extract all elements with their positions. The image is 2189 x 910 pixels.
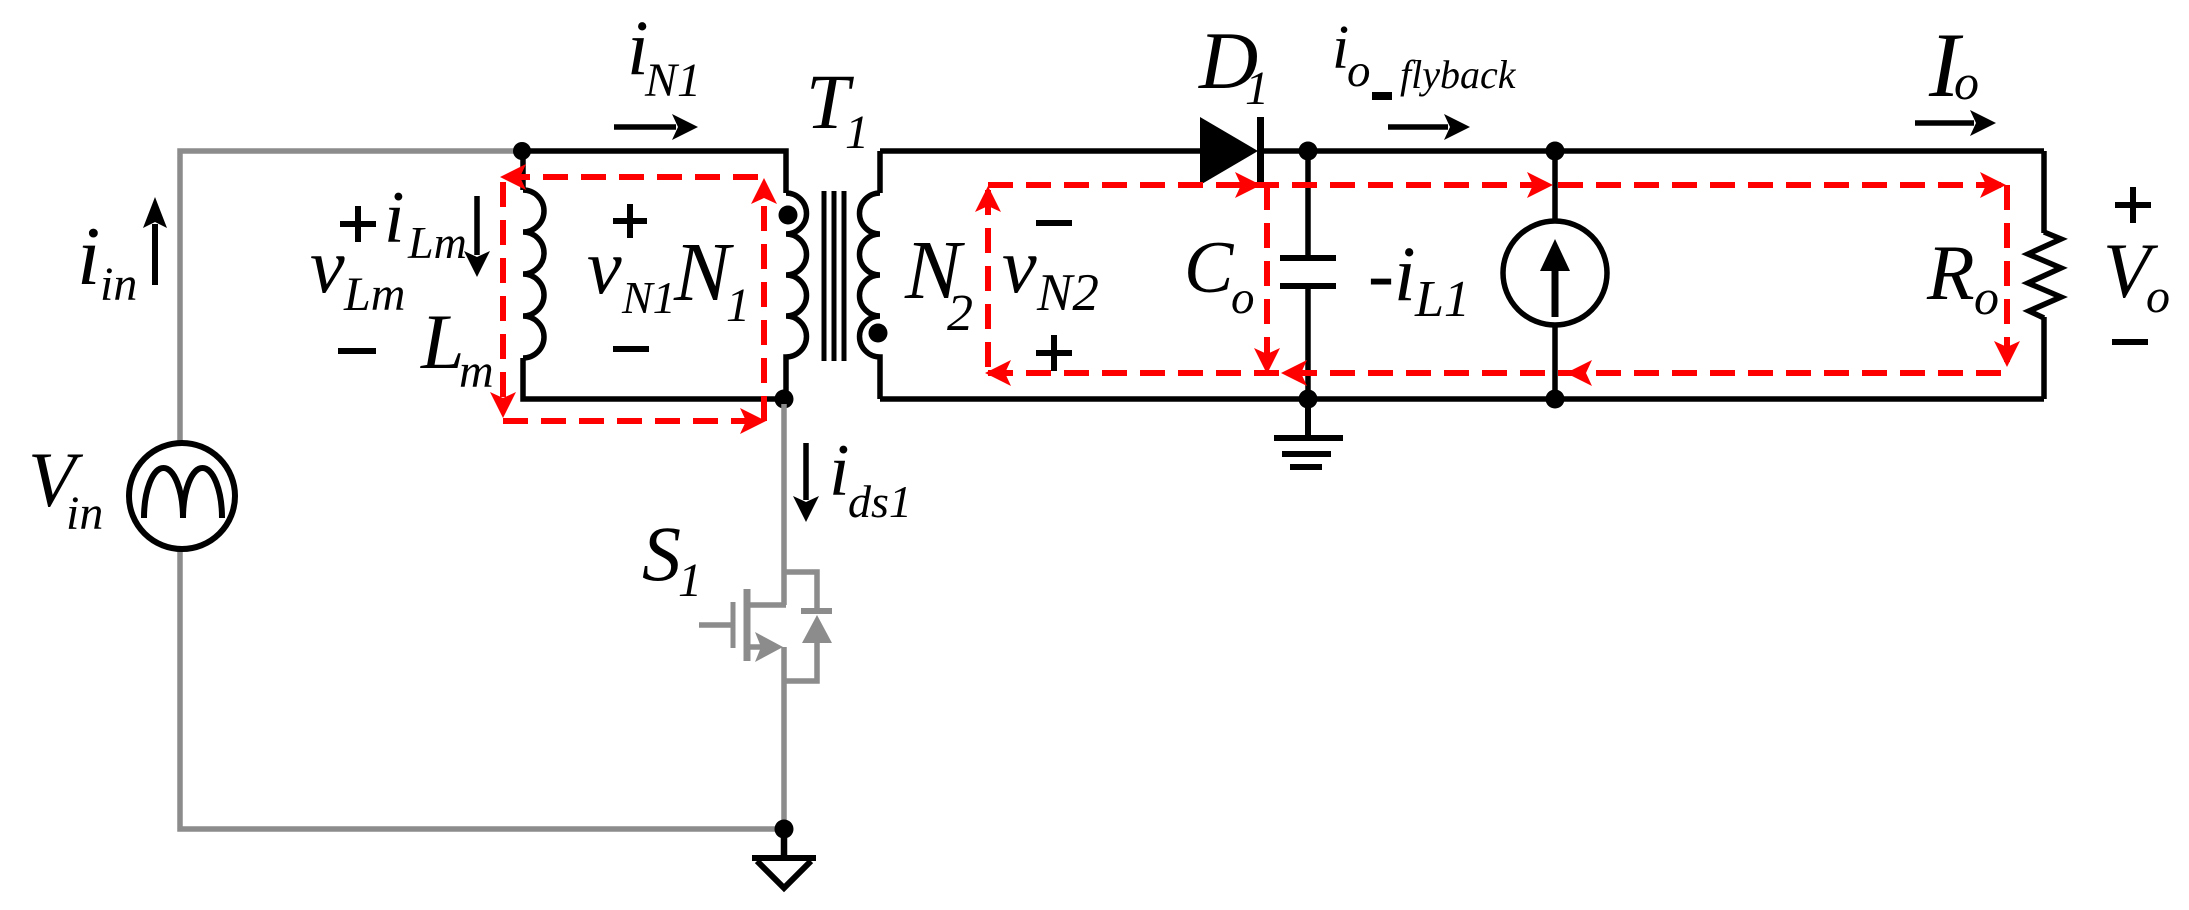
svg-text:o: o bbox=[1974, 269, 1999, 325]
svg-text:i: i bbox=[829, 430, 850, 512]
transformer T1 primary winding bbox=[786, 193, 806, 399]
svg-text:2: 2 bbox=[947, 285, 973, 342]
svg-text:N2: N2 bbox=[1036, 264, 1099, 322]
MOSFET S1 source arrow bbox=[755, 632, 783, 662]
node current source top bbox=[1546, 142, 1565, 161]
arrow i_in bbox=[152, 224, 158, 285]
svg-text:o: o bbox=[1347, 45, 1371, 97]
arrow i_o_flyback bbox=[1388, 124, 1448, 130]
svg-text:1: 1 bbox=[1245, 62, 1269, 115]
transformer secondary polarity dot bbox=[869, 324, 888, 343]
wire secondary bottom bbox=[880, 396, 2044, 402]
resistor Ro zigzag bbox=[2028, 232, 2061, 318]
red loop 2/3 top dashed line bbox=[988, 185, 2007, 373]
red loop 1 arrowheads bbox=[490, 164, 777, 434]
capacitor Co top lead bbox=[1305, 151, 1311, 256]
svg-text:o: o bbox=[2146, 270, 2170, 323]
inductor Lm stub bottom / wire bottom primary bbox=[523, 358, 786, 399]
svg-text:o: o bbox=[1954, 54, 1979, 110]
source V_in M squiggle bbox=[144, 468, 222, 518]
transformer primary polarity dot bbox=[779, 206, 798, 225]
arrow i_ds1 bbox=[803, 443, 809, 500]
label minus v_Lm bbox=[338, 348, 376, 354]
svg-text:in: in bbox=[66, 487, 103, 540]
svg-text:i: i bbox=[77, 210, 100, 303]
ground below capacitor bbox=[1274, 399, 1343, 467]
label plus v_N2 bbox=[1036, 335, 1072, 371]
wire secondary top to diode bbox=[880, 148, 1200, 154]
label minus v_N2 bbox=[1036, 220, 1072, 226]
node current source bottom bbox=[1546, 390, 1565, 409]
red loop 3 arrowheads bbox=[1281, 172, 2020, 386]
transformer T1 secondary winding bbox=[859, 193, 880, 399]
svg-text:N: N bbox=[673, 226, 734, 319]
svg-text:1: 1 bbox=[678, 554, 702, 607]
MOSFET S1 drain wire bbox=[699, 404, 817, 829]
red loop 2 arrowheads bbox=[975, 172, 1280, 386]
svg-text:1: 1 bbox=[845, 106, 869, 159]
svg-text:S: S bbox=[642, 510, 681, 597]
wire black top primary bbox=[522, 151, 786, 193]
wire output right vertical top bbox=[2041, 151, 2047, 233]
svg-text:N1: N1 bbox=[621, 272, 676, 323]
svg-text:v: v bbox=[310, 222, 345, 309]
svg-text:C: C bbox=[1184, 227, 1235, 309]
node diode cathode junction bbox=[1299, 142, 1318, 161]
current source arrow bbox=[1552, 271, 1559, 317]
label plus v_Lm bbox=[340, 206, 376, 242]
ground bottom stub bbox=[781, 829, 788, 858]
svg-text:L1: L1 bbox=[1414, 271, 1470, 328]
wire diode to output corner bbox=[1258, 148, 2044, 154]
inductor Lm coil bbox=[523, 190, 544, 358]
svg-text:v: v bbox=[587, 223, 622, 310]
svg-text:i: i bbox=[384, 177, 405, 259]
label plus v_N1 bbox=[613, 204, 647, 238]
MOSFET S1 body diode bar bbox=[801, 608, 832, 614]
node top-left junction bbox=[513, 142, 531, 160]
diode D1 cathode bar bbox=[1257, 117, 1264, 185]
node primary bottom bbox=[775, 390, 794, 409]
wire secondary top stub bbox=[877, 151, 883, 193]
label plus V_o bbox=[2115, 187, 2151, 223]
arrow i_N1 bbox=[614, 124, 676, 130]
svg-text:N1: N1 bbox=[644, 54, 701, 107]
diode D1 triangle bbox=[1200, 117, 1258, 185]
arrow I_o bbox=[1915, 120, 1974, 126]
label minus V_o bbox=[2112, 339, 2148, 345]
node bottom ground junction bbox=[775, 820, 794, 839]
transformer T1 core bbox=[824, 191, 844, 361]
label minus v_N1 bbox=[613, 346, 649, 352]
svg-text:Lm: Lm bbox=[407, 217, 467, 268]
svg-text:Lm: Lm bbox=[343, 268, 405, 321]
source V_in circle bbox=[129, 443, 235, 549]
ground bottom triangle bbox=[752, 855, 816, 861]
wire output right vertical bottom bbox=[2041, 317, 2047, 399]
svg-text:1: 1 bbox=[726, 279, 750, 332]
MOSFET S1 body diode triangle bbox=[802, 615, 832, 643]
inductor Lm stub top bbox=[520, 151, 526, 190]
svg-text:flyback: flyback bbox=[1400, 52, 1517, 97]
current source circle bbox=[1503, 221, 1607, 325]
svg-text:R: R bbox=[1926, 229, 1975, 316]
arrow i_Lm bbox=[474, 196, 480, 255]
svg-text:ds1: ds1 bbox=[848, 476, 912, 527]
svg-text:in: in bbox=[100, 258, 137, 311]
current source top lead bbox=[1552, 151, 1558, 221]
node capacitor bottom bbox=[1299, 390, 1318, 409]
svg-text:-i: -i bbox=[1368, 230, 1416, 317]
red loop 1 primary bbox=[503, 177, 764, 421]
svg-text:m: m bbox=[459, 345, 494, 398]
svg-text:v: v bbox=[1002, 222, 1037, 309]
capacitor Co plates bbox=[1280, 258, 1336, 286]
svg-text:o: o bbox=[1231, 272, 1255, 324]
wire gray input loop bbox=[180, 151, 778, 829]
current source bottom lead bbox=[1552, 325, 1558, 399]
svg-text:L: L bbox=[420, 298, 464, 385]
capacitor Co bottom lead bbox=[1305, 288, 1311, 399]
